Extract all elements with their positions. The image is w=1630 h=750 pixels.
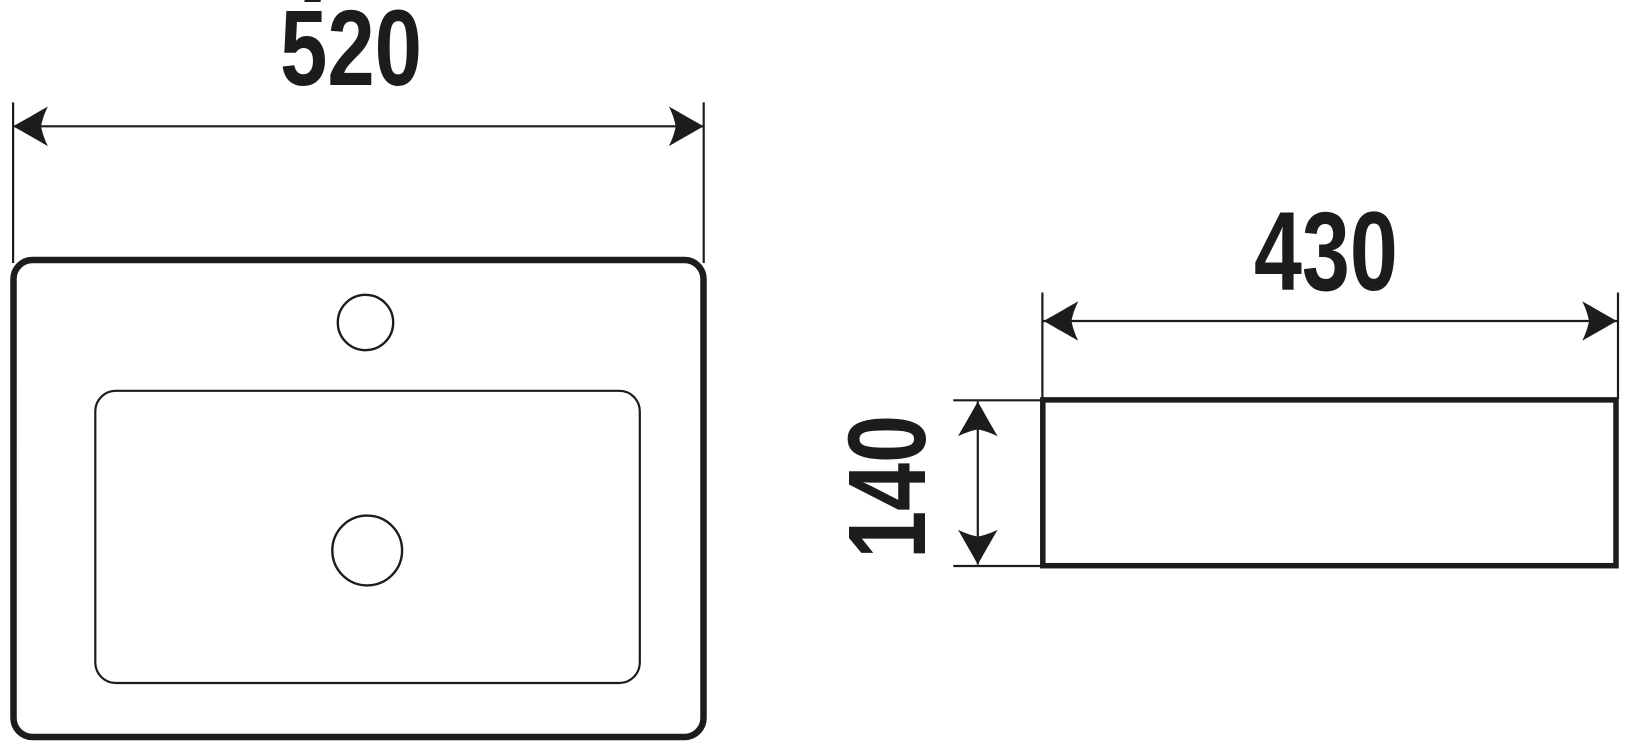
dim 520: right extension line <box>703 102 705 263</box>
stray crop mark at top <box>305 0 321 2</box>
top view: basin inner bowl <box>95 391 640 683</box>
dim 140: top extension line <box>953 399 1042 401</box>
svg-text:140: 140 <box>826 415 949 559</box>
top view: faucet hole <box>338 295 393 350</box>
dim 520: left arrowhead <box>13 107 48 147</box>
dim 520: left extension line <box>12 102 14 263</box>
svg-text:430: 430 <box>1254 189 1398 314</box>
dim 140: bottom extension line <box>953 565 1042 567</box>
dim 430: right arrowhead <box>1582 301 1617 341</box>
top view: drain hole <box>332 516 402 586</box>
dim 430: right extension line <box>1617 293 1619 400</box>
dim 430: left arrowhead <box>1044 301 1079 341</box>
dim 140: top arrowhead <box>958 402 998 437</box>
dim 520: dimension line <box>13 125 704 127</box>
svg-text:520: 520 <box>280 0 422 108</box>
dim 430: dimension line <box>1044 320 1618 322</box>
top view: sink outer rim <box>14 260 704 737</box>
side view: cabinet outline <box>1043 400 1616 566</box>
dim 140: dimension line <box>977 402 979 565</box>
dim 520: right arrowhead <box>669 107 704 147</box>
dim 140: bottom arrowhead <box>958 530 998 565</box>
dim 430: left extension line <box>1041 293 1043 400</box>
